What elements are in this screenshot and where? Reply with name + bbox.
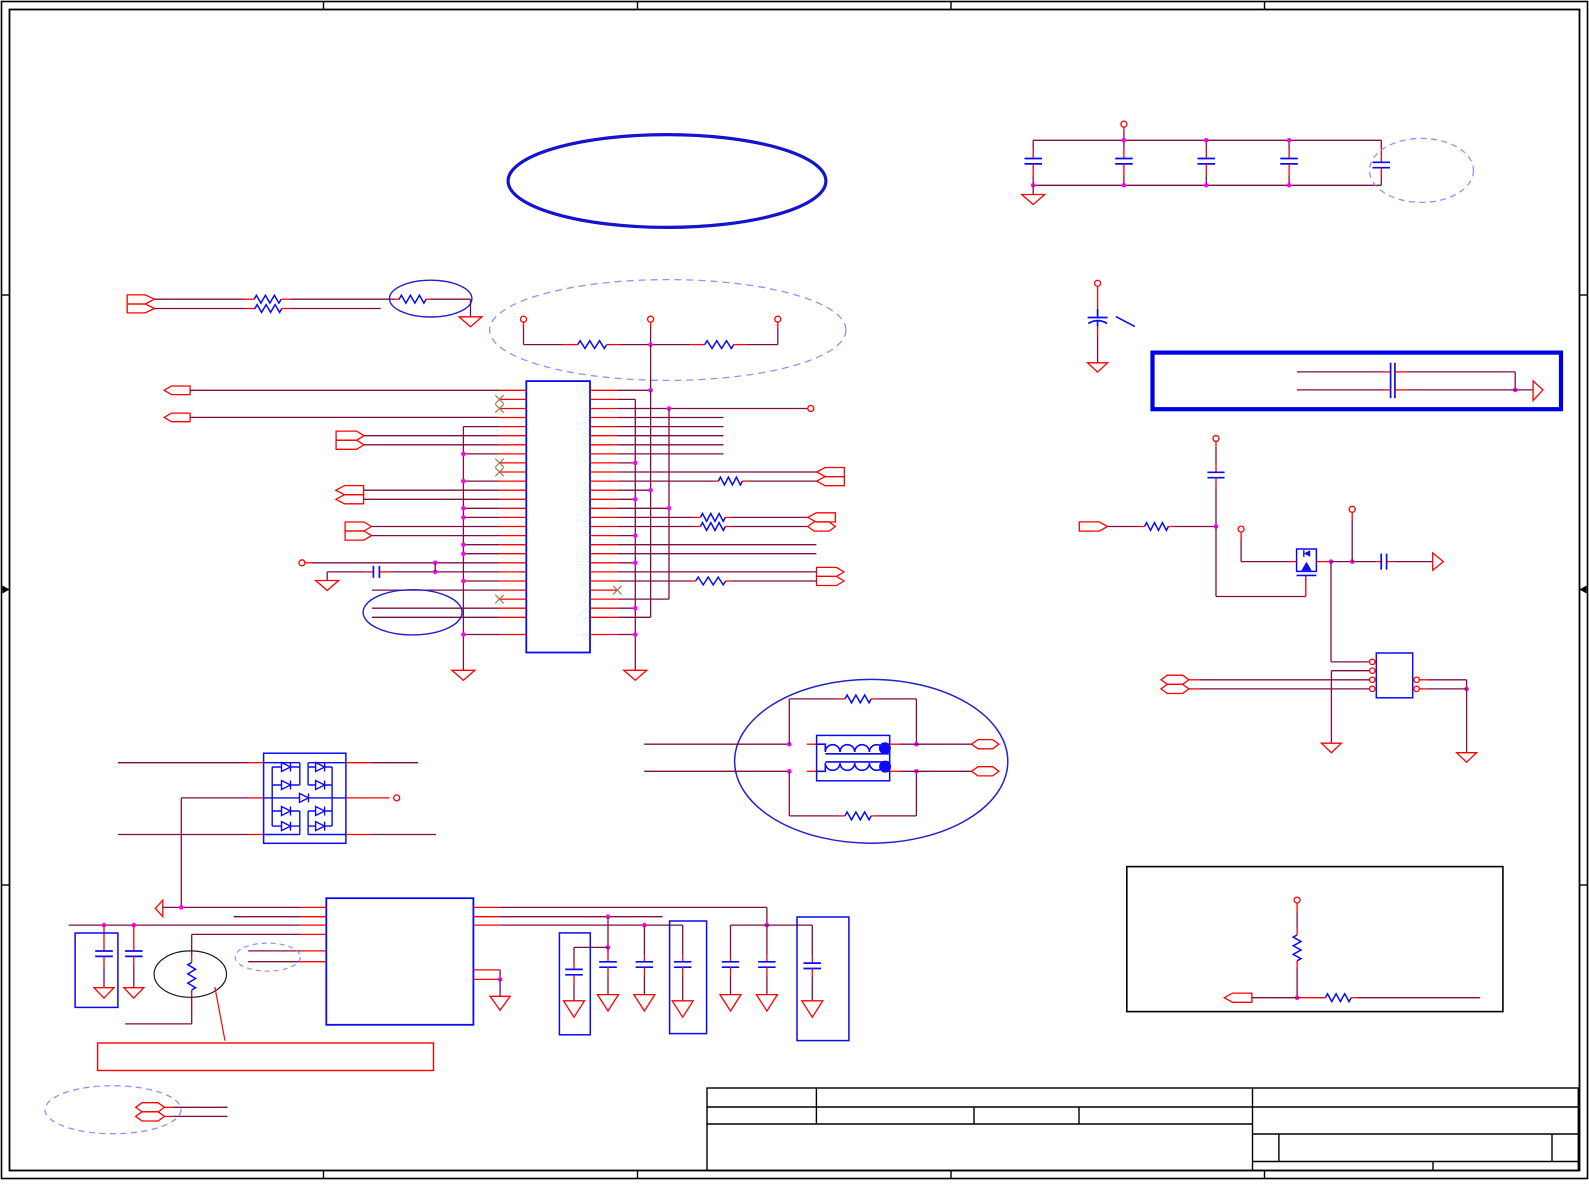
wire bbox=[1032, 176, 1034, 185]
connector J1 pin2 bbox=[127, 304, 154, 313]
wire bbox=[1428, 679, 1467, 681]
connector J10 bbox=[972, 740, 999, 749]
U1 left pin 18 bbox=[499, 544, 526, 546]
U1 right pin 14 bbox=[590, 507, 618, 509]
junction bbox=[914, 769, 919, 774]
pin stub bbox=[1240, 532, 1242, 540]
pin lead bbox=[133, 925, 135, 944]
U1 left pin 14 bbox=[499, 507, 526, 509]
wire bbox=[291, 298, 394, 300]
U1 left pin 16 bbox=[499, 526, 526, 528]
wire bbox=[125, 1023, 192, 1025]
wire bbox=[618, 526, 695, 528]
diode D6 bbox=[308, 781, 332, 790]
resistor R1 bbox=[254, 295, 281, 303]
U1 left pin 2 bbox=[499, 398, 526, 400]
component box C9 bbox=[559, 933, 590, 1035]
junction bbox=[1122, 183, 1127, 188]
wire bbox=[463, 480, 499, 482]
wire bbox=[1174, 526, 1216, 528]
junction bbox=[667, 506, 672, 511]
wire link bbox=[434, 563, 436, 572]
wire bbox=[618, 408, 808, 410]
resistor R9 bbox=[696, 577, 726, 585]
junction bbox=[461, 579, 466, 584]
resistor R3 bbox=[255, 305, 282, 313]
wire bbox=[173, 1106, 228, 1108]
U3 right pin 2 bbox=[1414, 686, 1419, 691]
pin lead bbox=[103, 925, 105, 944]
IC U3 bbox=[1376, 653, 1412, 698]
U1 left pin 21 bbox=[499, 571, 526, 573]
wire bbox=[103, 966, 105, 988]
pin stub bbox=[682, 967, 684, 975]
junction bbox=[1122, 138, 1127, 143]
U4 inner wire bbox=[312, 797, 346, 799]
resistor R12 bbox=[188, 963, 196, 991]
border tick bbox=[2, 884, 10, 886]
connector J1 bbox=[127, 295, 154, 304]
wire bbox=[190, 416, 499, 418]
pin stub bbox=[1215, 442, 1217, 451]
capacitor C6 bbox=[373, 566, 379, 578]
junction bbox=[461, 542, 466, 547]
wire bbox=[916, 770, 971, 772]
transformer T1 phase dot 2 bbox=[879, 761, 891, 773]
capacitor C4 bbox=[1280, 159, 1298, 164]
wire bbox=[877, 815, 917, 817]
capacitor C3 bbox=[1198, 159, 1216, 164]
U1 left pin 6 bbox=[499, 435, 526, 437]
pin stub bbox=[643, 967, 645, 975]
pin stub bbox=[1215, 466, 1217, 473]
border tick bbox=[323, 2, 325, 10]
U4 inner wire bbox=[264, 797, 296, 799]
diode D3 bbox=[272, 807, 300, 816]
wire pair lower bbox=[1297, 389, 1384, 391]
wire bbox=[155, 308, 246, 310]
ground bbox=[124, 988, 144, 998]
wire bbox=[364, 498, 500, 500]
wire bbox=[1466, 689, 1468, 753]
no-connect bbox=[495, 468, 503, 476]
junction bbox=[1513, 388, 1518, 393]
junction bbox=[1214, 524, 1219, 529]
wire bbox=[1123, 176, 1125, 185]
border tick bbox=[2, 294, 10, 296]
pin stub bbox=[1387, 561, 1394, 563]
resistor R14 bbox=[1293, 935, 1301, 961]
pin stub bbox=[1413, 688, 1414, 690]
U1 left pin 22 bbox=[499, 580, 526, 582]
transistor Q1 source bar bbox=[1297, 574, 1317, 576]
wire bbox=[618, 398, 636, 400]
junction bbox=[606, 914, 611, 919]
junction bbox=[433, 570, 438, 575]
wire bbox=[1331, 670, 1369, 672]
annotation box bbox=[1127, 867, 1503, 1012]
wire bbox=[191, 934, 193, 955]
wire bbox=[643, 925, 645, 955]
connector J13 bbox=[1079, 522, 1107, 531]
capacitor C18 bbox=[1207, 472, 1224, 477]
pin stub bbox=[246, 308, 256, 310]
U1 left pin 24 bbox=[499, 598, 526, 600]
connector J6 pin2 bbox=[345, 531, 371, 540]
wire line B bbox=[644, 770, 789, 772]
connector J4 bbox=[336, 431, 364, 440]
pin stub bbox=[1296, 928, 1298, 935]
junction bbox=[1329, 559, 1334, 564]
ground bbox=[94, 988, 114, 998]
junction bbox=[461, 506, 466, 511]
wire bbox=[574, 946, 608, 948]
resistor R10 bbox=[845, 695, 871, 703]
wire row3 bbox=[500, 924, 683, 926]
wire bbox=[1305, 575, 1307, 583]
capacitor C7 bbox=[95, 951, 113, 956]
pin stub bbox=[1296, 903, 1298, 912]
wire bbox=[788, 771, 790, 816]
connector J8 pin2 bbox=[808, 522, 836, 531]
wire bbox=[1514, 372, 1516, 390]
border tick bbox=[950, 1171, 952, 1179]
pin stub bbox=[1139, 526, 1145, 528]
U1 right pin 21 bbox=[590, 571, 618, 573]
border tick bbox=[1264, 2, 1266, 10]
connector J15 pin2 bbox=[1161, 684, 1189, 693]
connector J17 pin2 bbox=[136, 1112, 165, 1121]
pin stub bbox=[346, 762, 370, 764]
wire bbox=[312, 562, 499, 564]
wire bbox=[650, 328, 652, 345]
wire bbox=[326, 572, 328, 581]
pin stub bbox=[839, 815, 845, 817]
wire bbox=[1032, 140, 1034, 149]
capacitor C10 bbox=[599, 962, 617, 967]
wire bbox=[463, 580, 499, 582]
pin stub bbox=[1189, 688, 1200, 690]
wire bbox=[1394, 561, 1433, 563]
power pin VCC2 bbox=[1095, 280, 1101, 286]
diode D9 bbox=[296, 793, 312, 802]
wire bbox=[1215, 450, 1217, 466]
U1 left pin 4 bbox=[499, 417, 526, 419]
U1 right pin 3 bbox=[590, 408, 618, 410]
wire bbox=[234, 916, 300, 918]
U1 right pin 7 bbox=[590, 444, 618, 446]
pin stub bbox=[1123, 164, 1125, 176]
U1 left pin 3 bbox=[499, 408, 526, 410]
diode array U4 body bbox=[264, 753, 346, 843]
pin stub bbox=[133, 944, 135, 951]
wire bbox=[163, 906, 300, 908]
wire bbox=[731, 580, 816, 582]
component box C15 bbox=[797, 917, 849, 1041]
pin stub bbox=[573, 963, 575, 970]
wire bbox=[618, 480, 713, 482]
U1 left pin 1 bbox=[499, 389, 526, 391]
ground bbox=[598, 995, 619, 1011]
wire bbox=[618, 426, 724, 428]
U3 right pin 1 bbox=[1414, 677, 1419, 682]
wire bbox=[618, 616, 651, 618]
wire bbox=[788, 699, 790, 744]
wire bbox=[916, 743, 971, 745]
diode D4 bbox=[272, 822, 300, 831]
wire bbox=[1466, 680, 1468, 689]
wire bbox=[291, 308, 381, 310]
no-connect bbox=[495, 459, 503, 467]
border tick bbox=[1580, 884, 1588, 886]
connector J7 pin2 bbox=[817, 477, 845, 486]
wire bbox=[390, 571, 499, 573]
wire bbox=[133, 966, 135, 988]
U4 inner link bbox=[299, 826, 301, 834]
node GND rail bbox=[1033, 184, 1381, 186]
ground bbox=[459, 317, 482, 327]
wire bbox=[682, 925, 684, 955]
wire bbox=[248, 961, 300, 963]
pin stub bbox=[1351, 512, 1353, 520]
U1 right pin 12 bbox=[590, 489, 618, 491]
pin stub bbox=[1375, 670, 1376, 672]
wire bbox=[463, 516, 499, 518]
U1 left pin 25 bbox=[499, 607, 526, 609]
resistor R4 bbox=[578, 341, 607, 349]
wire bbox=[1407, 371, 1515, 373]
pin stub bbox=[191, 955, 193, 963]
wire bbox=[915, 699, 917, 744]
pin stub bbox=[103, 944, 105, 951]
pin stub bbox=[1419, 688, 1428, 690]
pin stub bbox=[523, 322, 525, 328]
pin stub bbox=[1380, 168, 1382, 178]
wire bbox=[811, 925, 813, 957]
U1 right pin 16 bbox=[590, 526, 618, 528]
pin stub bbox=[811, 969, 813, 977]
pin P3 bbox=[775, 316, 781, 322]
wire bbox=[463, 453, 499, 455]
junction bbox=[461, 632, 466, 637]
pin stub bbox=[1375, 688, 1376, 690]
pin P4 bbox=[299, 560, 305, 566]
connector J6 bbox=[345, 522, 371, 531]
pin stub bbox=[1296, 961, 1298, 968]
wire to U3 bbox=[1330, 562, 1332, 662]
wire bbox=[730, 975, 732, 995]
transformer T1 phase dot 1 bbox=[879, 742, 891, 754]
U1 right pin 19 bbox=[590, 553, 618, 555]
node VCC rail bbox=[1033, 139, 1381, 141]
wire bbox=[766, 907, 768, 925]
wire bbox=[431, 298, 471, 300]
pin stub bbox=[1290, 561, 1297, 563]
pin stub bbox=[103, 956, 105, 966]
resistor R13 bbox=[1145, 523, 1169, 531]
pin stub bbox=[695, 526, 701, 528]
junction bbox=[1464, 687, 1469, 692]
wire bbox=[1407, 389, 1515, 391]
wire bbox=[327, 571, 365, 573]
junction bbox=[433, 561, 438, 566]
pin stub bbox=[1351, 997, 1358, 999]
wire bbox=[1032, 185, 1034, 194]
pin stub bbox=[839, 698, 845, 700]
wire mid bbox=[181, 797, 249, 799]
junction bbox=[633, 561, 638, 566]
pin stub bbox=[1168, 526, 1174, 528]
ground bbox=[1321, 743, 1341, 753]
junction bbox=[1204, 138, 1209, 143]
pin stub bbox=[690, 580, 696, 582]
U1 right pin 18 bbox=[590, 544, 618, 546]
ground bbox=[316, 581, 339, 591]
U1 right pin 8 bbox=[590, 453, 618, 455]
pin stub bbox=[725, 526, 731, 528]
U2 right pin 2 bbox=[473, 916, 500, 918]
pin stub bbox=[1380, 153, 1382, 162]
pin stub bbox=[811, 957, 813, 964]
wire bbox=[1252, 997, 1297, 999]
highlight ellipse around R2 bbox=[390, 280, 472, 317]
transformer T1 body bbox=[817, 735, 890, 780]
resistor R15 bbox=[1325, 994, 1351, 1002]
wire bbox=[900, 743, 917, 745]
connector J8 bbox=[808, 513, 836, 522]
U4 inner link bbox=[299, 811, 301, 826]
wire bbox=[1200, 688, 1370, 690]
wire bbox=[463, 507, 499, 509]
pin stub bbox=[249, 834, 264, 836]
pin stub bbox=[133, 956, 135, 966]
ground bbox=[720, 995, 741, 1011]
wire bbox=[1205, 176, 1207, 185]
wire AC in 2 bbox=[118, 834, 249, 836]
U1 right pin 11 bbox=[590, 480, 618, 482]
wire left GND bus bbox=[462, 427, 464, 671]
wire bbox=[618, 571, 817, 573]
wire bbox=[364, 435, 499, 437]
wire bbox=[620, 344, 691, 346]
wire right GND bus bbox=[634, 399, 636, 670]
border tick bbox=[1264, 1171, 1266, 1179]
wire bbox=[1515, 389, 1533, 391]
pin stub bbox=[1305, 583, 1307, 597]
wire bbox=[1358, 997, 1480, 999]
diode D8 bbox=[308, 822, 332, 831]
junction bbox=[765, 923, 770, 928]
wire bbox=[1216, 596, 1306, 598]
wire bbox=[618, 489, 651, 491]
wire bbox=[682, 975, 684, 1001]
wire bbox=[915, 771, 917, 816]
wire bbox=[618, 453, 724, 455]
highlight ellipse pin group bbox=[490, 280, 846, 381]
power pin VCC5 bbox=[1294, 897, 1300, 903]
wire bbox=[618, 598, 669, 600]
resistor R8 bbox=[700, 523, 725, 531]
wire bbox=[607, 975, 609, 995]
border tick bbox=[637, 1171, 639, 1179]
pin stub bbox=[379, 571, 390, 573]
transistor Q1 diode mark bbox=[1304, 550, 1310, 557]
pin stub bbox=[807, 743, 817, 745]
wire bbox=[463, 553, 499, 555]
pin stub bbox=[1419, 679, 1428, 681]
U2 left pin 5 bbox=[300, 950, 326, 952]
pin stub bbox=[1384, 371, 1391, 373]
pin stub bbox=[726, 580, 732, 582]
IC U2 bbox=[326, 898, 473, 1025]
wire bbox=[191, 997, 193, 1024]
pin stub bbox=[1215, 478, 1217, 486]
title block cell line bbox=[1278, 1134, 1280, 1162]
highlight ellipse around C5 bbox=[1370, 138, 1474, 202]
pin stub bbox=[165, 1115, 174, 1117]
pin stub bbox=[607, 955, 609, 962]
title block divider bbox=[815, 1088, 817, 1124]
wire bbox=[1288, 176, 1290, 185]
U1 right pin 5 bbox=[590, 426, 618, 428]
title block cell line bbox=[1078, 1107, 1080, 1124]
ground bbox=[564, 1001, 585, 1017]
connector arrow J11 bbox=[155, 900, 163, 916]
U2 right pin 4 bbox=[473, 969, 500, 971]
title block cell line bbox=[973, 1107, 975, 1124]
junction bbox=[1287, 138, 1292, 143]
U2 left pin 3 bbox=[300, 924, 326, 926]
ground left bus bbox=[452, 670, 475, 680]
pin stub bbox=[1205, 150, 1207, 159]
junction bbox=[132, 923, 137, 928]
wire bbox=[499, 979, 501, 996]
capacitor C5 bbox=[1373, 162, 1391, 167]
title block row line bbox=[707, 1123, 1253, 1125]
pin stub bbox=[730, 955, 732, 962]
no-connect bbox=[495, 404, 503, 412]
transformer T1 winding 2 bbox=[817, 763, 890, 771]
component box C7 bbox=[75, 933, 118, 1007]
highlight ellipse connector bbox=[45, 1086, 181, 1134]
pin stub bbox=[725, 516, 731, 518]
U2 right pin 5 bbox=[473, 978, 500, 980]
wire bbox=[900, 770, 917, 772]
pin stub bbox=[643, 955, 645, 962]
junction bbox=[633, 497, 638, 502]
wire bbox=[1331, 561, 1352, 563]
U1 left pin 15 bbox=[499, 516, 526, 518]
wire bbox=[372, 589, 499, 591]
pin stub bbox=[890, 770, 900, 772]
diode D5 bbox=[308, 763, 332, 772]
wire bbox=[364, 444, 499, 446]
wire bbox=[524, 344, 564, 346]
wire bbox=[618, 462, 636, 464]
U1 left pin 23 bbox=[499, 589, 526, 591]
resistor R7 bbox=[700, 514, 725, 522]
pin stub bbox=[1288, 150, 1290, 159]
U1 right pin 13 bbox=[590, 498, 618, 500]
pin stub bbox=[1316, 561, 1331, 563]
junction bbox=[461, 551, 466, 556]
no-connect bbox=[613, 586, 621, 594]
wire cap rail bbox=[69, 924, 300, 926]
wire bbox=[173, 1115, 228, 1117]
wire bbox=[766, 925, 768, 955]
connector arrow J12 bbox=[1533, 381, 1543, 401]
wire bbox=[1330, 671, 1332, 744]
